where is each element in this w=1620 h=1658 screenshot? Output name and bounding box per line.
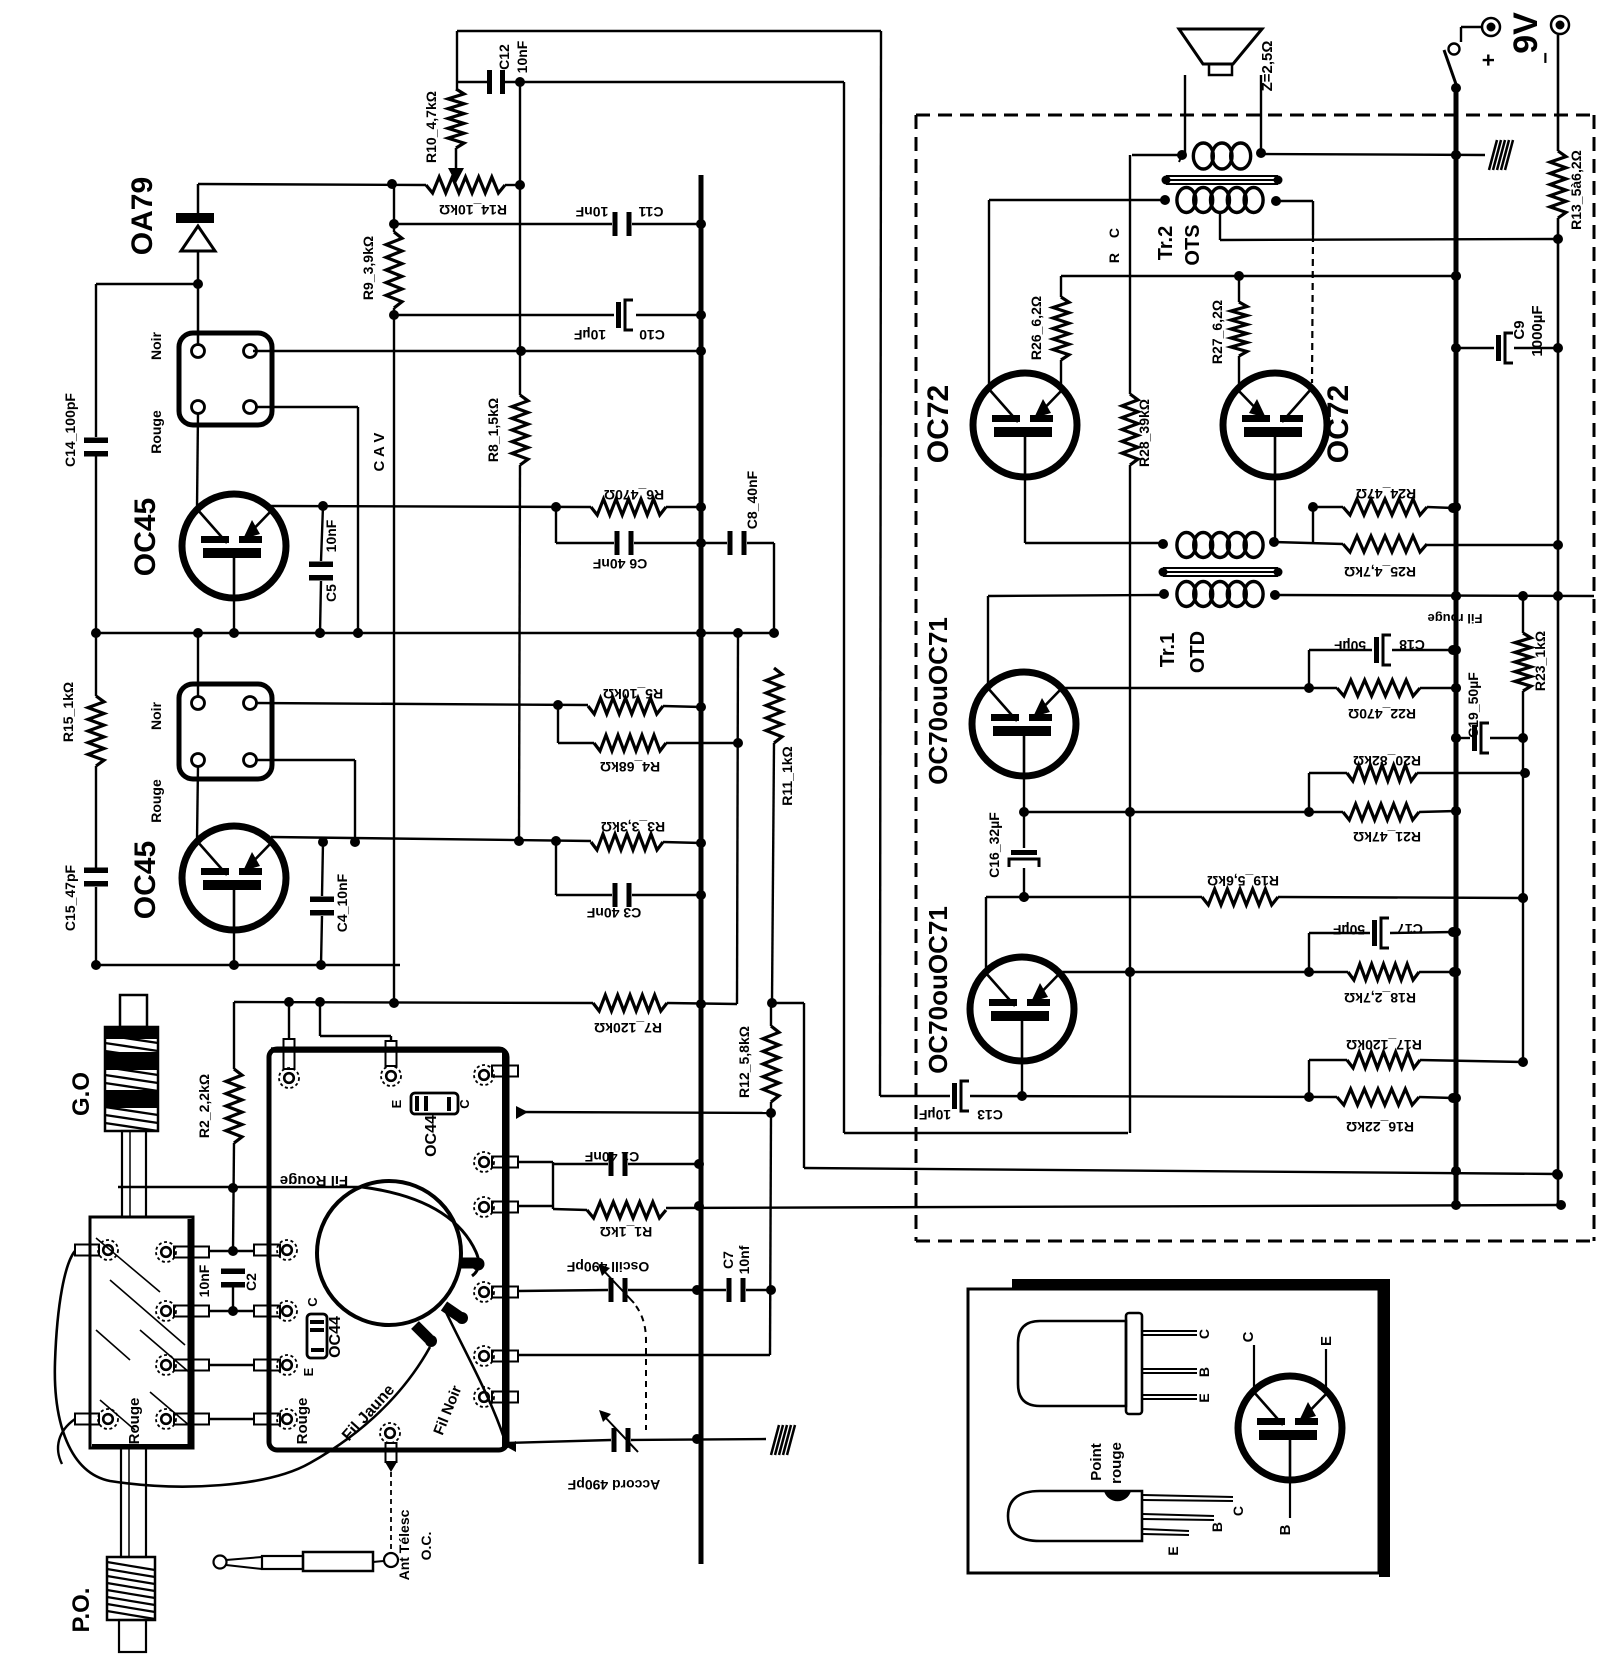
svg-text:C12: C12 [496,44,512,70]
svg-text:R22_470Ω: R22_470Ω [1348,706,1416,722]
svg-text:Tr.2: Tr.2 [1155,226,1177,260]
svg-text:C14_100pF: C14_100pF [62,393,78,467]
svg-text:C11: C11 [638,204,663,220]
svg-text:C: C [1196,1329,1212,1339]
svg-text:B: B [1209,1522,1225,1532]
svg-text:R19_5,6kΩ: R19_5,6kΩ [1207,873,1279,889]
svg-text:C1 40nF: C1 40nF [584,1149,639,1165]
svg-text:C16_32µF: C16_32µF [986,812,1002,878]
svg-text:OC72: OC72 [922,385,955,463]
svg-text:R28_39kΩ: R28_39kΩ [1136,399,1152,467]
svg-text:R2_2,2kΩ: R2_2,2kΩ [196,1074,212,1138]
svg-text:10nF: 10nF [575,204,608,220]
svg-text:50µF: 50µF [1333,638,1366,654]
svg-text:C7: C7 [720,1251,736,1269]
svg-text:C A V: C A V [371,433,388,472]
svg-text:OC72: OC72 [1322,385,1355,463]
svg-text:R8_1,5kΩ: R8_1,5kΩ [485,398,501,462]
svg-text:Rouge: Rouge [126,1398,143,1445]
svg-text:OA79: OA79 [126,177,159,255]
svg-text:B: B [1196,1367,1212,1377]
svg-text:OC45: OC45 [129,498,162,576]
svg-text:C8_40nF: C8_40nF [744,470,760,529]
svg-text:R27_6,2Ω: R27_6,2Ω [1209,300,1225,364]
svg-text:Ant Télesc: Ant Télesc [396,1509,412,1580]
svg-text:9V: 9V [1507,12,1545,54]
svg-text:C3 40nF: C3 40nF [586,905,641,921]
svg-text:R23_1kΩ: R23_1kΩ [1532,631,1548,691]
svg-text:OC70ouOC71: OC70ouOC71 [923,617,953,785]
svg-text:C17: C17 [1397,921,1423,937]
svg-text:Z=2,5Ω: Z=2,5Ω [1259,41,1276,92]
svg-text:C2: C2 [243,1273,259,1291]
svg-text:50µF: 50µF [1332,922,1365,938]
svg-text:E: E [1196,1393,1212,1402]
svg-text:+: + [1476,54,1501,67]
svg-text:10nF: 10nF [514,40,530,73]
svg-text:OTS: OTS [1182,224,1204,265]
svg-text:R26_6,2Ω: R26_6,2Ω [1028,296,1044,360]
svg-text:G.O: G.O [68,1072,95,1116]
svg-text:E: E [1318,1336,1335,1346]
svg-text:C9: C9 [1511,320,1528,339]
svg-text:O.C.: O.C. [418,1532,434,1561]
svg-text:R1_1kΩ: R1_1kΩ [600,1224,652,1240]
svg-text:C: C [457,1099,472,1109]
svg-text:10µF: 10µF [573,327,606,343]
svg-text:Accord 490pF: Accord 490pF [567,1477,660,1493]
svg-text:−: − [1535,52,1557,64]
svg-text:R12_5,8kΩ: R12_5,8kΩ [736,1026,752,1098]
svg-text:C5: C5 [323,584,339,602]
svg-text:10nf: 10nf [736,1245,752,1274]
svg-text:C6 40nF: C6 40nF [592,556,647,572]
svg-text:C19_50µF: C19_50µF [1465,672,1481,738]
svg-text:R24_47Ω: R24_47Ω [1356,486,1416,502]
svg-text:C13: C13 [977,1107,1003,1123]
svg-text:Tr.1: Tr.1 [1157,633,1179,667]
svg-text:C: C [305,1297,320,1307]
svg-text:R5_10kΩ: R5_10kΩ [603,686,663,702]
svg-text:R3_3,3kΩ: R3_3,3kΩ [601,819,665,835]
svg-text:OC45: OC45 [129,841,162,919]
svg-text:OC44: OC44 [423,1115,440,1157]
svg-text:C: C [1106,228,1122,238]
svg-text:C: C [1230,1506,1246,1516]
svg-text:R13_5à6,2Ω: R13_5à6,2Ω [1568,150,1584,230]
svg-text:C15_47pF: C15_47pF [62,864,78,931]
svg-text:E: E [1165,1546,1181,1555]
svg-text:B: B [1277,1524,1294,1535]
svg-text:Point: Point [1088,1443,1105,1481]
svg-text:C18: C18 [1399,637,1425,653]
svg-text:OTD: OTD [1187,631,1209,673]
svg-text:E: E [389,1099,404,1108]
svg-text:OC44: OC44 [327,1316,344,1358]
svg-text:R17_120kΩ: R17_120kΩ [1346,1037,1422,1053]
svg-text:C: C [1240,1331,1257,1342]
svg-text:Rouge: Rouge [148,779,164,823]
svg-text:C4_10nF: C4_10nF [334,873,350,932]
svg-text:1000µF: 1000µF [1529,305,1546,356]
svg-text:C10: C10 [639,327,665,343]
svg-text:R6_470Ω: R6_470Ω [604,487,664,503]
svg-text:R25_4,7kΩ: R25_4,7kΩ [1344,564,1416,580]
svg-text:Rouge: Rouge [294,1398,311,1445]
svg-text:OC70ouOC71: OC70ouOC71 [923,906,953,1074]
svg-text:rouge: rouge [1108,1442,1125,1484]
svg-text:Rouge: Rouge [148,410,164,454]
svg-text:R11_1kΩ: R11_1kΩ [779,746,795,806]
svg-text:10nF: 10nF [196,1264,212,1297]
svg-text:R4_68kΩ: R4_68kΩ [600,759,660,775]
svg-text:R9_3,9kΩ: R9_3,9kΩ [360,236,376,300]
svg-text:R20_82kΩ: R20_82kΩ [1353,753,1421,769]
svg-text:R15_1kΩ: R15_1kΩ [60,682,76,742]
svg-text:P.O.: P.O. [68,1588,95,1633]
svg-text:Noir: Noir [148,331,164,360]
svg-text:R: R [1106,253,1122,263]
svg-text:R16_22kΩ: R16_22kΩ [1346,1119,1414,1135]
svg-text:R14_10kΩ: R14_10kΩ [439,202,507,218]
svg-text:10nF: 10nF [323,519,339,552]
svg-text:10µF: 10µF [918,1107,951,1123]
svg-text:R7_120kΩ: R7_120kΩ [594,1020,662,1036]
svg-text:E: E [301,1367,316,1376]
svg-text:R10_4,7kΩ: R10_4,7kΩ [423,91,439,163]
svg-text:R18_2,7kΩ: R18_2,7kΩ [1344,990,1416,1006]
svg-text:R21_47kΩ: R21_47kΩ [1353,829,1421,845]
svg-text:Fil Rouge: Fil Rouge [280,1172,348,1189]
svg-text:Noir: Noir [148,701,164,730]
svg-text:Oscill 490pF: Oscill 490pF [566,1259,649,1275]
